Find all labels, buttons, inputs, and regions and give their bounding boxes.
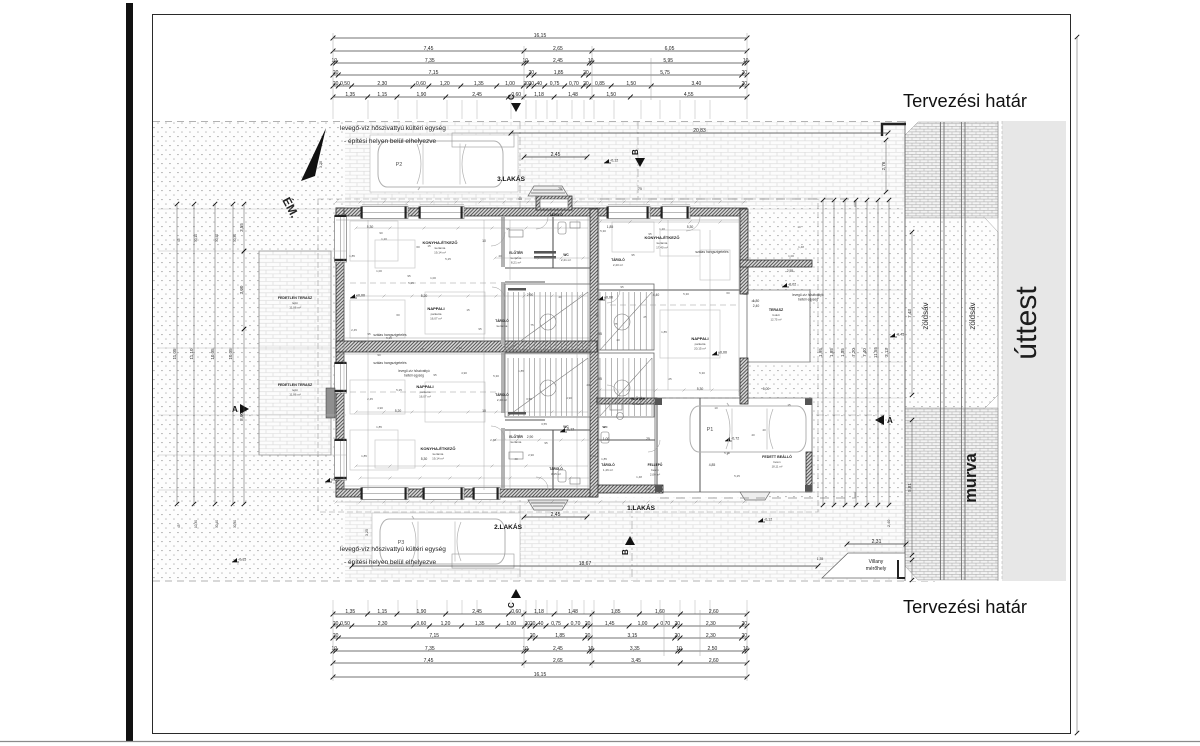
extension lines bottom bbox=[333, 600, 747, 614]
carport posts bbox=[655, 398, 812, 492]
room eloter LL bbox=[509, 434, 523, 444]
svg-text:2,00 m²: 2,00 m² bbox=[650, 473, 660, 477]
svg-text:1,00: 1,00 bbox=[506, 621, 516, 627]
svg-text:0,85: 0,85 bbox=[595, 81, 605, 87]
svg-text:TERASZ: TERASZ bbox=[769, 308, 784, 312]
bracket BR bbox=[898, 560, 905, 578]
level pm0 R bbox=[712, 351, 727, 356]
svg-text:1,35: 1,35 bbox=[475, 621, 485, 627]
dim right v6 bbox=[884, 198, 891, 507]
svg-text:2,30: 2,30 bbox=[706, 621, 716, 627]
top wall left unit bbox=[336, 208, 597, 216]
svg-text:0,70: 0,70 bbox=[569, 81, 579, 87]
svg-text:0,60: 0,60 bbox=[511, 92, 521, 98]
svg-text:levegő-víz hőszivattyú kültéri: levegő-víz hőszivattyú kültéri egység bbox=[340, 546, 446, 553]
svg-text:±0,00: ±0,00 bbox=[718, 351, 727, 355]
svg-text:10: 10 bbox=[676, 646, 682, 652]
marker C top bbox=[507, 94, 521, 112]
svg-text:5,25: 5,25 bbox=[445, 257, 451, 261]
svg-text:- építési helyen belül elhelye: - építési helyen belül elhelyezve bbox=[344, 138, 437, 145]
svg-text:0,60: 0,60 bbox=[511, 609, 521, 615]
marker A right bbox=[875, 415, 893, 425]
svg-text:FEDETLEN TERASZ: FEDETLEN TERASZ bbox=[278, 296, 313, 300]
svg-text:2,90: 2,90 bbox=[528, 453, 534, 457]
svg-text:TÁROLÓ: TÁROLÓ bbox=[549, 212, 563, 217]
svg-text:60: 60 bbox=[416, 245, 420, 249]
svg-text:20: 20 bbox=[585, 633, 591, 639]
svg-text:5,30: 5,30 bbox=[724, 451, 730, 455]
svg-text:95: 95 bbox=[478, 327, 482, 331]
section line B bbox=[632, 121, 638, 581]
svg-text:90: 90 bbox=[595, 313, 599, 317]
svg-text:1,50: 1,50 bbox=[626, 81, 636, 87]
svg-text:16,15: 16,15 bbox=[534, 672, 547, 678]
door arcs bbox=[491, 217, 700, 489]
building floor white bbox=[336, 208, 747, 497]
svg-text:0,75: 0,75 bbox=[550, 81, 560, 87]
svg-text:4,90: 4,90 bbox=[461, 371, 467, 375]
room wc R bbox=[603, 425, 609, 429]
svg-text:11,06 m²: 11,06 m² bbox=[289, 306, 301, 310]
svg-text:95: 95 bbox=[367, 332, 371, 336]
stair R1 bbox=[600, 292, 652, 350]
svg-text:5,30: 5,30 bbox=[699, 371, 705, 375]
interior dims v1 bbox=[484, 220, 668, 490]
svg-text:1,85: 1,85 bbox=[554, 70, 564, 76]
svg-text:5,30: 5,30 bbox=[697, 387, 704, 391]
svg-text:2,45: 2,45 bbox=[553, 646, 563, 652]
fedetlen terasz slab bbox=[259, 251, 331, 455]
wc fixtures bbox=[509, 222, 624, 484]
svg-text:5,25: 5,25 bbox=[408, 281, 414, 285]
dim left v1 bbox=[172, 202, 179, 506]
svg-text:5,75: 5,75 bbox=[660, 70, 670, 76]
room nappali UL bbox=[427, 306, 444, 321]
terasz top beam bbox=[740, 260, 812, 267]
svg-text:19,14 m²: 19,14 m² bbox=[432, 457, 444, 461]
svg-text:2,40: 2,40 bbox=[753, 304, 760, 308]
svg-text:beton: beton bbox=[774, 460, 781, 464]
svg-text:B: B bbox=[621, 549, 630, 555]
room nappali R bbox=[691, 336, 708, 351]
svg-text:lejtő: lejtő bbox=[292, 301, 298, 305]
room tarolo RB bbox=[601, 462, 615, 472]
car P2 bbox=[378, 138, 503, 190]
steps 1.lakas fellepo bbox=[740, 492, 770, 500]
svg-text:7,45: 7,45 bbox=[424, 658, 434, 664]
svg-text:4,55: 4,55 bbox=[684, 92, 694, 98]
svg-text:2,76: 2,76 bbox=[881, 161, 886, 170]
wall nappali/eloter right unit bbox=[597, 398, 657, 404]
svg-text:20: 20 bbox=[742, 70, 748, 76]
neighbor bracket TR bbox=[882, 124, 906, 136]
dim left small cluster top bbox=[177, 234, 237, 242]
svg-text:20: 20 bbox=[742, 621, 748, 627]
svg-text:5,30: 5,30 bbox=[421, 457, 428, 461]
svg-text:30,40: 30,40 bbox=[215, 520, 219, 528]
level pm0 LL bbox=[325, 478, 340, 483]
carport top dashed bbox=[662, 397, 812, 399]
dim right 2.76 bbox=[881, 138, 888, 194]
small storeroom top bbox=[536, 196, 572, 210]
svg-text:3,55: 3,55 bbox=[239, 223, 244, 232]
svg-text:20: 20 bbox=[583, 70, 589, 76]
svg-text:10: 10 bbox=[523, 58, 529, 64]
svg-text:3,55: 3,55 bbox=[526, 397, 532, 401]
dim right 7.43 bbox=[907, 230, 914, 397]
svg-text:95: 95 bbox=[620, 285, 624, 289]
dim top row3 bbox=[331, 58, 750, 66]
svg-text:2,45: 2,45 bbox=[456, 346, 462, 350]
svg-text:ELŐTÉR: ELŐTÉR bbox=[509, 434, 523, 439]
svg-text:40: 40 bbox=[751, 433, 755, 437]
dim 2.45 entrance bbox=[522, 152, 590, 160]
svg-text:ELŐTÉR: ELŐTÉR bbox=[631, 396, 645, 401]
svg-text:2,45: 2,45 bbox=[551, 512, 561, 518]
svg-text:1,35: 1,35 bbox=[474, 81, 484, 87]
svg-text:20: 20 bbox=[742, 633, 748, 639]
svg-text:20,15 m²: 20,15 m² bbox=[694, 347, 706, 351]
svg-text:levegő-víz hőszivattyú: levegő-víz hőszivattyú bbox=[398, 369, 430, 373]
svg-text:1,00: 1,00 bbox=[590, 454, 596, 458]
svg-text:-0,02: -0,02 bbox=[788, 283, 796, 287]
svg-text:40: 40 bbox=[558, 295, 562, 299]
svg-text:5,30: 5,30 bbox=[683, 292, 689, 296]
svg-text:2,90: 2,90 bbox=[527, 435, 534, 439]
svg-text:1.LAKÁS: 1.LAKÁS bbox=[627, 503, 655, 512]
marker C bottom bbox=[507, 589, 521, 608]
svg-text:18,11 m²: 18,11 m² bbox=[772, 465, 783, 469]
front dashed line bottom bbox=[660, 492, 855, 498]
svg-text:3,13: 3,13 bbox=[884, 348, 889, 357]
svg-text:1,48: 1,48 bbox=[798, 245, 804, 249]
svg-text:20: 20 bbox=[529, 70, 535, 76]
paved yard top (brick) bbox=[345, 122, 905, 207]
svg-text:2,45: 2,45 bbox=[472, 92, 482, 98]
front dashed line top bbox=[600, 199, 855, 207]
svg-text:FEDETLEN TERASZ: FEDETLEN TERASZ bbox=[278, 383, 313, 387]
interior dims h2 bbox=[355, 411, 589, 414]
svg-text:95: 95 bbox=[544, 441, 548, 445]
svg-text:7,15: 7,15 bbox=[429, 70, 439, 76]
left black bar bbox=[126, 3, 133, 741]
drawing frame bbox=[153, 15, 1071, 734]
svg-text:0,60: 0,60 bbox=[416, 81, 426, 87]
road green middle (zoldsav) bbox=[905, 218, 998, 408]
svg-text:16,07 m²: 16,07 m² bbox=[430, 317, 442, 321]
svg-text:90: 90 bbox=[743, 292, 747, 296]
site boundary dashed top bbox=[153, 121, 935, 123]
svg-text:0,75: 0,75 bbox=[551, 621, 561, 627]
svg-text:5,25: 5,25 bbox=[734, 474, 740, 478]
svg-text:5,30: 5,30 bbox=[600, 229, 606, 233]
bottom wall right unit bbox=[597, 485, 663, 493]
svg-text:- építési helyen belül elhelye: - építési helyen belül elhelyezve bbox=[344, 559, 437, 566]
corridor wall left unit bbox=[501, 217, 505, 489]
svg-text:kerámia: kerámia bbox=[497, 324, 508, 328]
svg-text:10: 10 bbox=[332, 646, 338, 652]
svg-text:8,00: 8,00 bbox=[239, 412, 244, 421]
dim block verticals top bbox=[333, 33, 747, 100]
level m012 bottom bbox=[758, 518, 772, 523]
room tarolo LB bbox=[549, 466, 563, 476]
carport floor bbox=[655, 398, 812, 492]
svg-text:TÁROLÓ: TÁROLÓ bbox=[601, 462, 615, 467]
svg-text:25: 25 bbox=[646, 437, 650, 441]
level m045 right bbox=[890, 333, 904, 338]
carport right low wall bbox=[806, 452, 812, 492]
dim top row2 bbox=[331, 46, 750, 54]
svg-text:3.LAKÁS: 3.LAKÁS bbox=[497, 174, 525, 183]
svg-text:20: 20 bbox=[529, 81, 535, 87]
level m072 carport bbox=[725, 437, 739, 442]
svg-text:1,95: 1,95 bbox=[818, 348, 823, 357]
svg-text:5,95: 5,95 bbox=[663, 58, 673, 64]
parking pad P3 bbox=[372, 513, 520, 569]
svg-text:15: 15 bbox=[427, 244, 431, 248]
svg-text:5,30: 5,30 bbox=[493, 374, 499, 378]
dim bot row5 bbox=[331, 658, 750, 666]
svg-text:0,70: 0,70 bbox=[571, 621, 581, 627]
svg-text:10: 10 bbox=[714, 406, 718, 410]
svg-text:25: 25 bbox=[643, 315, 647, 319]
svg-text:1,48: 1,48 bbox=[568, 609, 578, 615]
svg-text:8,21 m²: 8,21 m² bbox=[511, 261, 521, 265]
svg-text:1,85: 1,85 bbox=[376, 425, 382, 429]
svg-text:1,48: 1,48 bbox=[636, 475, 642, 479]
fedetlen terasz label 2 bbox=[278, 383, 313, 397]
carport label bbox=[762, 454, 792, 469]
svg-text:-0,12: -0,12 bbox=[764, 518, 772, 522]
svg-text:20: 20 bbox=[530, 621, 536, 627]
svg-text:5,30: 5,30 bbox=[687, 225, 694, 229]
svg-text:parketta: parketta bbox=[695, 342, 706, 346]
dim right 1.35b bbox=[910, 558, 914, 582]
beltéri egység 1 bbox=[398, 369, 430, 378]
svg-text:kerámia: kerámia bbox=[633, 402, 644, 406]
svg-text:10: 10 bbox=[523, 646, 529, 652]
extension lines left yard bbox=[158, 209, 346, 490]
car P1 bbox=[690, 403, 806, 455]
svg-text:kerámia: kerámia bbox=[435, 246, 446, 250]
svg-text:20: 20 bbox=[333, 70, 339, 76]
svg-text:45: 45 bbox=[177, 524, 181, 528]
uttest strip bbox=[1002, 121, 1066, 581]
level m015 left bbox=[232, 558, 246, 563]
heatpump box bottom bbox=[452, 554, 514, 568]
svg-text:20: 20 bbox=[583, 81, 589, 87]
svg-text:1,35: 1,35 bbox=[840, 348, 845, 357]
steps 3.lakas bbox=[528, 186, 568, 196]
dim right 5.81 bbox=[907, 418, 914, 557]
svg-text:12,75 m²: 12,75 m² bbox=[770, 318, 781, 322]
svg-text:40: 40 bbox=[762, 428, 766, 432]
level m012 yard bbox=[560, 428, 574, 433]
party wall center vertical bbox=[590, 209, 598, 497]
svg-text:fedett: fedett bbox=[773, 313, 780, 317]
room konyha UL bbox=[423, 240, 458, 255]
extension lines right yard bbox=[750, 209, 903, 492]
svg-text:3,45: 3,45 bbox=[631, 658, 641, 664]
dim left v5c bbox=[239, 327, 246, 506]
section line C bbox=[519, 121, 521, 581]
svg-text:1,48: 1,48 bbox=[568, 92, 578, 98]
svg-text:FEDETT BEÁLLÓ: FEDETT BEÁLLÓ bbox=[762, 454, 792, 459]
marker A left bbox=[232, 404, 249, 414]
svg-text:40: 40 bbox=[751, 299, 755, 303]
dim bot row3 bbox=[331, 633, 750, 641]
paved yard bottom (brick) bbox=[345, 500, 905, 580]
svg-text:parketta: parketta bbox=[431, 312, 442, 316]
dim right v4 bbox=[862, 198, 869, 507]
level m002 terasz bbox=[782, 283, 796, 288]
svg-text:1,45: 1,45 bbox=[605, 621, 615, 627]
svg-text:11,10: 11,10 bbox=[189, 348, 194, 359]
dim right v2 bbox=[840, 198, 847, 507]
svg-text:60: 60 bbox=[726, 291, 730, 295]
dim right v0 bbox=[818, 198, 825, 507]
svg-text:0,50: 0,50 bbox=[340, 81, 350, 87]
svg-text:2,40 m²: 2,40 m² bbox=[497, 398, 507, 402]
svg-text:5,30: 5,30 bbox=[645, 487, 651, 491]
svg-text:95: 95 bbox=[506, 227, 510, 231]
svg-text:18,67: 18,67 bbox=[579, 561, 592, 567]
heatpump text top bbox=[340, 125, 446, 145]
dim top row5 bbox=[331, 81, 750, 89]
svg-text:40: 40 bbox=[518, 197, 522, 201]
room wc LL bbox=[563, 425, 569, 429]
svg-text:7,40: 7,40 bbox=[862, 348, 867, 357]
svg-text:11,05: 11,05 bbox=[172, 348, 177, 359]
svg-text:11,55: 11,55 bbox=[873, 347, 878, 358]
svg-text:1,20: 1,20 bbox=[659, 227, 665, 231]
svg-text:mérőhely: mérőhely bbox=[866, 566, 887, 572]
room eloter UL bbox=[509, 250, 523, 265]
svg-text:3,55: 3,55 bbox=[541, 422, 547, 426]
svg-text:3,00: 3,00 bbox=[239, 285, 244, 294]
svg-text:-0,12: -0,12 bbox=[610, 159, 618, 163]
room konyha LL bbox=[421, 446, 456, 461]
svg-text:20: 20 bbox=[530, 633, 536, 639]
dim right v5 bbox=[873, 198, 880, 507]
building envelope dashed bbox=[318, 199, 818, 512]
svg-text:1,85: 1,85 bbox=[361, 454, 367, 458]
svg-text:1,00: 1,00 bbox=[638, 621, 648, 627]
left wall niche bbox=[326, 388, 335, 418]
scattered dims bbox=[367, 187, 824, 561]
north arrow bbox=[301, 128, 326, 181]
svg-text:4,40: 4,40 bbox=[653, 293, 660, 297]
svg-text:2,45: 2,45 bbox=[351, 328, 357, 332]
level pm0 mid bbox=[598, 296, 613, 301]
svg-text:2,45: 2,45 bbox=[551, 152, 561, 158]
svg-text:5,25: 5,25 bbox=[359, 340, 365, 344]
dim 2.31 bbox=[845, 539, 909, 547]
room taroloT bbox=[549, 212, 563, 217]
svg-text:7,35: 7,35 bbox=[425, 58, 435, 64]
svg-text:20: 20 bbox=[675, 633, 681, 639]
room wc UL bbox=[561, 253, 571, 262]
interior dims h9 bbox=[359, 477, 591, 480]
ceiling beam dashes bbox=[350, 283, 738, 392]
svg-text:levegő-víz hőszivattyú: levegő-víz hőszivattyú bbox=[792, 293, 824, 297]
right unit interior bbox=[597, 290, 740, 492]
svg-text:1,85: 1,85 bbox=[661, 330, 667, 334]
svg-text:1,20: 1,20 bbox=[381, 237, 387, 241]
svg-text:-0,45: -0,45 bbox=[896, 333, 904, 337]
svg-text:FELLÉPŐ: FELLÉPŐ bbox=[648, 462, 663, 467]
svg-text:WC: WC bbox=[563, 253, 569, 257]
svg-text:murva: murva bbox=[962, 452, 980, 502]
chain below building bbox=[335, 501, 748, 504]
dim right 2.40 bbox=[887, 520, 891, 527]
svg-text:B: B bbox=[631, 149, 640, 155]
svg-text:1,00: 1,00 bbox=[603, 437, 610, 441]
svg-text:5,25: 5,25 bbox=[396, 388, 402, 392]
svg-text:10: 10 bbox=[743, 58, 749, 64]
dim bot row4 bbox=[331, 646, 750, 654]
svg-text:P2: P2 bbox=[396, 162, 403, 168]
svg-text:95: 95 bbox=[407, 274, 411, 278]
furniture upper left bbox=[350, 221, 730, 470]
svg-text:1,85: 1,85 bbox=[611, 609, 621, 615]
dim top row1 bbox=[331, 33, 750, 41]
svg-text:1,85: 1,85 bbox=[555, 633, 565, 639]
svg-text:NAPPALI: NAPPALI bbox=[691, 336, 708, 341]
interior dims h4 bbox=[355, 227, 589, 230]
parking pad P2 bbox=[370, 135, 518, 192]
svg-text:szálas hangszigetelés: szálas hangszigetelés bbox=[373, 361, 406, 365]
stair R2 bbox=[600, 358, 652, 416]
svg-text:kerámia: kerámia bbox=[433, 452, 444, 456]
svg-text:4,90: 4,90 bbox=[566, 396, 572, 400]
room fellepo bbox=[648, 462, 663, 477]
svg-text:75: 75 bbox=[638, 187, 642, 191]
svg-text:40: 40 bbox=[538, 621, 544, 627]
inner face lines bbox=[336, 217, 747, 489]
dim top row6 bbox=[331, 92, 750, 100]
svg-text:40: 40 bbox=[586, 383, 590, 387]
svg-text:2,60: 2,60 bbox=[709, 609, 719, 615]
dim right v1 bbox=[829, 198, 836, 507]
svg-text:levegő-víz hőszivattyú kültéri: levegő-víz hőszivattyú kültéri egység bbox=[340, 125, 446, 132]
svg-text:60: 60 bbox=[396, 313, 400, 317]
road base bbox=[905, 121, 1002, 581]
svg-text:45: 45 bbox=[177, 238, 181, 242]
dim 2.45 entrance b bbox=[522, 512, 590, 520]
svg-text:TÁROLÓ: TÁROLÓ bbox=[549, 466, 563, 471]
svg-text:10: 10 bbox=[588, 58, 594, 64]
svg-text:1,20: 1,20 bbox=[440, 81, 450, 87]
svg-text:beltéri egység: beltéri egység bbox=[798, 298, 818, 302]
bottom page rule bbox=[0, 741, 1200, 743]
svg-text:1,46 m²: 1,46 m² bbox=[603, 468, 613, 472]
svg-text:2,31: 2,31 bbox=[872, 539, 882, 545]
road lane lines bbox=[941, 122, 966, 580]
road right border bbox=[997, 121, 999, 581]
svg-text:NAPPALI: NAPPALI bbox=[416, 384, 433, 389]
svg-text:1,18: 1,18 bbox=[534, 92, 544, 98]
right wall upper bbox=[740, 209, 748, 294]
svg-text:16,15: 16,15 bbox=[534, 33, 547, 39]
wc walls lower bbox=[505, 420, 590, 489]
villany merohely bbox=[822, 553, 905, 578]
left wall bbox=[336, 208, 344, 497]
svg-text:1,90: 1,90 bbox=[417, 609, 427, 615]
svg-text:5,30: 5,30 bbox=[367, 225, 374, 229]
svg-text:95: 95 bbox=[648, 232, 652, 236]
svg-text:KONYHA-ÉTKEZŐ: KONYHA-ÉTKEZŐ bbox=[421, 446, 456, 451]
